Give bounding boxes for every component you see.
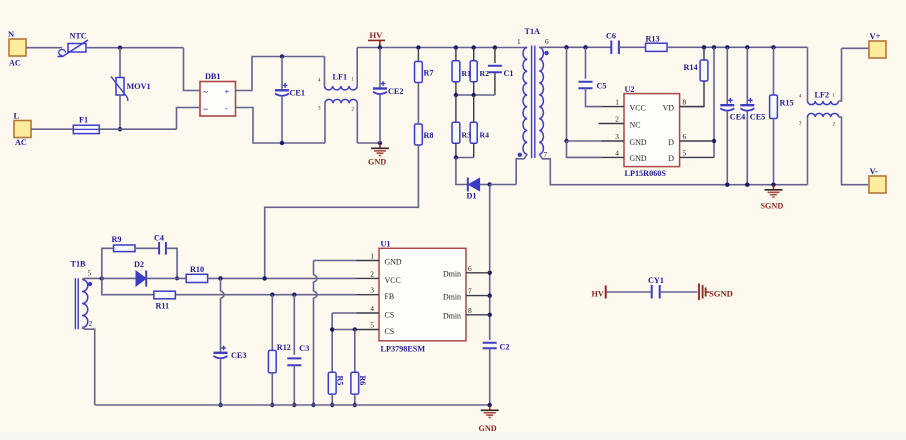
polarity dot T1A primary (518, 153, 522, 157)
resistor R11 (154, 291, 176, 299)
svg-text:5: 5 (683, 148, 687, 157)
svg-text:R15: R15 (780, 99, 794, 108)
drain bus vertical (489, 185, 491, 341)
svg-text:N: N (8, 29, 15, 39)
node CE1 top (280, 54, 284, 58)
node R12 top (270, 293, 274, 297)
wire MOV1 to node L-line (119, 95, 121, 129)
svg-text:T1B: T1B (71, 260, 87, 269)
U2 pin 3 GND (602, 140, 625, 142)
svg-text:7: 7 (544, 150, 548, 159)
svg-text:HV: HV (370, 30, 384, 40)
svg-text:NTC: NTC (70, 32, 87, 41)
terminal N (9, 39, 26, 56)
node CE1 bottom (280, 141, 284, 145)
svg-text:+: + (225, 88, 230, 97)
thermistor NTC (68, 44, 86, 53)
svg-text:CS: CS (385, 311, 395, 320)
terminal V- (869, 176, 886, 193)
diode D2 (102, 277, 136, 279)
wire R8 to VCC net (265, 145, 419, 278)
capacitor CE2 (379, 48, 381, 88)
wire R14 to VD pin8 (680, 81, 704, 107)
node CE3 branch (218, 276, 222, 280)
svg-text:FB: FB (385, 292, 395, 301)
svg-text:1: 1 (615, 98, 619, 107)
node C3 bottom (292, 403, 296, 407)
node CE3 bottom (218, 403, 222, 407)
node Dmin pin6 (488, 271, 492, 275)
wire node to DB1 top input (184, 48, 201, 91)
capacitor C2 (483, 343, 497, 349)
svg-text:DB1: DB1 (205, 72, 220, 81)
resistor R14 (703, 47, 705, 60)
wire D2 to R10 (146, 277, 186, 279)
node R7 top (416, 45, 420, 49)
node junction N-line (118, 46, 122, 50)
svg-text:U1: U1 (381, 240, 391, 249)
svg-text:R10: R10 (190, 265, 204, 274)
svg-text:3: 3 (615, 132, 619, 141)
U1 pin 1 GND (357, 260, 380, 262)
port SGND (699, 284, 706, 301)
transformer T1A core (532, 46, 535, 159)
node C1 top (493, 45, 497, 49)
wire secondary pin7 to output return rail (539, 154, 807, 185)
svg-text:HV: HV (592, 290, 604, 299)
resistor R12 branch (271, 295, 273, 351)
capacitor C3 branch (293, 295, 295, 355)
svg-text:SGND: SGND (761, 202, 784, 211)
wire F1 to node (99, 128, 176, 130)
svg-text:8: 8 (683, 98, 687, 107)
polarity dot T1B (88, 282, 92, 286)
svg-text:U2: U2 (625, 85, 635, 94)
node GND net bottom (311, 403, 315, 407)
choke LF1 lower winding (324, 103, 326, 143)
svg-text:D: D (668, 138, 674, 147)
op-amp U2 LP15R060S box (624, 94, 680, 167)
node R3 bottom (454, 155, 458, 159)
svg-text:CS: CS (385, 327, 395, 336)
node R8 feed (263, 276, 267, 280)
wire snubber mid rail (456, 94, 495, 96)
svg-text:6: 6 (683, 132, 687, 141)
node CE4 top (725, 45, 729, 49)
node U2 gnd branch (564, 45, 568, 49)
svg-text:GND: GND (385, 258, 402, 267)
svg-text:6: 6 (468, 264, 472, 273)
node C3 top (292, 293, 296, 297)
U1 pin 2 VCC (357, 277, 380, 279)
svg-text:GND: GND (479, 424, 497, 433)
node R6 bottom (353, 403, 357, 407)
varistor MOV1 (116, 78, 124, 96)
choke LF2 upper winding (807, 47, 809, 101)
wire U2 gnd branch (566, 47, 568, 141)
U2 pin 5 D (680, 156, 714, 158)
wire FB row left (102, 278, 357, 294)
svg-text:T1A: T1A (525, 27, 541, 36)
svg-text:5: 5 (88, 269, 92, 278)
resistor R7 (417, 48, 419, 62)
resistor R10 (186, 274, 208, 282)
node Dmin pin8 (488, 313, 492, 317)
svg-text:GND: GND (368, 158, 386, 167)
svg-text:V-: V- (870, 166, 879, 176)
U2 pin 1 VCC (602, 106, 625, 108)
svg-text:F1: F1 (79, 116, 88, 125)
svg-text:~: ~ (204, 88, 209, 97)
svg-text:CE5: CE5 (750, 113, 765, 122)
capacitor CE3 branch with hop (220, 278, 222, 291)
wire to U2 GND pin3 (567, 140, 602, 142)
resistor R1 (455, 48, 457, 61)
svg-text:R9: R9 (112, 235, 122, 244)
svg-text:C2: C2 (500, 343, 510, 352)
resistor R5 (328, 372, 336, 394)
capacitor C6 (611, 41, 619, 55)
resistor R6 (354, 330, 356, 373)
wire D-pins branch (713, 47, 715, 157)
node D-pins branch (712, 45, 716, 49)
svg-text:MOV1: MOV1 (127, 82, 151, 91)
svg-text:4: 4 (370, 304, 374, 313)
svg-text:GND: GND (630, 154, 647, 163)
svg-text:CE1: CE1 (290, 89, 305, 98)
svg-text:LF2: LF2 (815, 91, 830, 100)
node Dmin pin7 (488, 293, 492, 297)
node R1 top (454, 45, 458, 49)
node HV (378, 45, 382, 49)
svg-text:D1: D1 (467, 192, 477, 201)
svg-text:2: 2 (370, 269, 374, 278)
node junction L-line (118, 127, 122, 131)
transformer T1A secondary winding (539, 47, 543, 154)
node T1B pin5 (100, 276, 104, 280)
ground symbol GND bottom (489, 406, 491, 410)
svg-text:C1: C1 (504, 69, 514, 78)
wire to D1 (456, 158, 468, 185)
wire node to DB1 bottom input (177, 108, 201, 130)
resistor R9 (114, 245, 136, 252)
svg-text:VD: VD (663, 104, 675, 113)
wire C6 to R13 (619, 46, 646, 48)
node R14 top (702, 45, 706, 49)
node R15 top (771, 45, 775, 49)
node R2 top (472, 45, 476, 49)
wire R9 to C4 (135, 247, 158, 249)
node pin6 junction (712, 139, 716, 143)
svg-text:R5: R5 (336, 376, 345, 386)
svg-text:Dmin: Dmin (443, 292, 461, 301)
U2 pin 8 VD (680, 106, 704, 108)
svg-text:D: D (668, 154, 674, 163)
svg-text:1: 1 (370, 252, 374, 261)
svg-text:Dmin: Dmin (443, 312, 461, 321)
wire CY1 to SGND port (661, 291, 698, 293)
svg-text:CE4: CE4 (730, 113, 745, 122)
svg-text:2: 2 (89, 319, 93, 328)
svg-text:L: L (14, 111, 20, 121)
node C5 top (583, 45, 587, 49)
node CE5 top (745, 45, 749, 49)
node R12 bottom (270, 403, 274, 407)
U1 pin 6 Dmin (466, 272, 490, 274)
node CE2 bottom GND (378, 141, 382, 145)
svg-text:1: 1 (517, 37, 521, 46)
wire U1 GND net (314, 260, 357, 262)
wire HV port to CY1 (607, 291, 651, 293)
wire DB1 minus out to bottom rail (236, 108, 326, 144)
capacitor CY1 (652, 285, 660, 299)
terminal L (14, 121, 31, 138)
transformer T1B winding (82, 280, 88, 328)
capacitor C4 (159, 242, 166, 255)
ground symbol SGND (773, 185, 775, 189)
svg-text:5: 5 (370, 321, 374, 330)
wire snubber bottom rail (456, 157, 474, 159)
output top rail (667, 46, 807, 48)
svg-text:SGND: SGND (709, 289, 733, 299)
svg-text:AC: AC (15, 138, 27, 147)
wire C4 down to VCC row (166, 248, 177, 278)
svg-text:CE3: CE3 (231, 351, 246, 360)
wire to U2 GND pin4 (567, 141, 602, 157)
svg-text:R3: R3 (462, 130, 472, 139)
svg-text:4: 4 (615, 148, 619, 157)
resistor R13 (646, 43, 668, 51)
resistor R3 (455, 95, 457, 122)
svg-text:Dmin: Dmin (443, 270, 461, 279)
op-amp U1 LP3798ESM box (379, 248, 466, 340)
wire L to F1 (31, 128, 73, 130)
U2 pin 2 NC (599, 123, 625, 125)
wire primary bottom to drain node (490, 184, 517, 186)
wire N to NTC (26, 47, 62, 49)
wire D1 to drain node (480, 184, 490, 186)
svg-text:7: 7 (468, 287, 472, 296)
U1 pin 4 CS (357, 312, 380, 314)
svg-text:R6: R6 (358, 376, 367, 386)
svg-text:AC: AC (9, 59, 21, 68)
terminal V+ (869, 41, 886, 58)
node GND rail end (488, 403, 492, 407)
wire CS pin4 branch (332, 312, 356, 314)
svg-text:R11: R11 (156, 302, 170, 311)
svg-text:GND: GND (630, 138, 647, 147)
svg-text:R12: R12 (277, 343, 291, 352)
node drain (488, 182, 492, 186)
choke LF2 lower winding (807, 117, 809, 185)
HV rail (357, 47, 527, 49)
ground symbol GND primary (379, 144, 381, 148)
U1 pin 8 Dmin (466, 314, 490, 316)
wire aux loop left (102, 248, 113, 278)
wire VCC row (208, 277, 357, 279)
svg-text:3: 3 (370, 286, 374, 295)
vertical GND net with hops (313, 261, 315, 276)
svg-text:NC: NC (630, 121, 641, 130)
choke LF1 upper winding (324, 57, 326, 87)
node R2 bottom (472, 93, 476, 97)
wire LF2 to V+ (842, 47, 870, 49)
polarity dot T1A secondary (544, 51, 548, 55)
svg-text:C3: C3 (299, 344, 309, 353)
transformer T1A primary winding (523, 48, 527, 155)
svg-text:R1: R1 (462, 69, 472, 78)
U2 pin 4 GND (602, 156, 625, 158)
svg-text:C4: C4 (154, 234, 164, 243)
U2 pin 6 D (680, 140, 714, 142)
svg-text:R7: R7 (424, 69, 434, 78)
node C4 branch (175, 276, 179, 280)
node R5 top (330, 327, 334, 331)
node CE4 bottom (725, 183, 729, 187)
bottom ground rail (95, 404, 490, 406)
svg-text:R2: R2 (480, 69, 490, 78)
svg-text:R14: R14 (684, 63, 698, 72)
wire CS pin5 row (332, 329, 356, 331)
svg-text:V+: V+ (870, 31, 881, 41)
svg-text:-: - (225, 104, 228, 113)
U1 pin 3 FB (357, 294, 380, 296)
node SGND (771, 183, 775, 187)
svg-text:R8: R8 (424, 131, 434, 140)
capacitor CE5 (746, 47, 748, 104)
svg-text:R4: R4 (480, 130, 490, 139)
capacitor C5 (585, 47, 587, 79)
resistor R15 (773, 47, 775, 95)
svg-text:LP3798ESM: LP3798ESM (381, 345, 426, 354)
wire NTC to node (86, 47, 184, 49)
wire node to MOV1 (119, 48, 121, 78)
capacitor CE4 (726, 47, 728, 104)
svg-text:6: 6 (545, 37, 549, 46)
U1 pin 5 CS (357, 329, 380, 331)
diode D1 (467, 178, 469, 192)
bridge rectifier DB1 (200, 82, 236, 117)
resistor R2 (473, 48, 475, 61)
svg-text:R13: R13 (646, 35, 660, 44)
node pin3 branch (564, 139, 568, 143)
svg-text:2: 2 (615, 115, 619, 124)
svg-text:~: ~ (204, 105, 209, 114)
svg-text:8: 8 (468, 306, 472, 315)
svg-text:VCC: VCC (385, 276, 401, 285)
svg-text:CY1: CY1 (648, 276, 664, 285)
svg-text:D2: D2 (134, 260, 144, 269)
svg-text:C6: C6 (606, 32, 616, 41)
node CE5 bottom (745, 183, 749, 187)
fuse F1 (73, 125, 99, 133)
resistor R8 (415, 124, 423, 145)
wire DB1 plus out to filter rail (236, 57, 325, 91)
capacitor CE1 (281, 57, 283, 90)
resistor R4 (473, 95, 475, 122)
node R5 bottom (330, 403, 334, 407)
svg-text:LP15R060S: LP15R060S (625, 169, 667, 178)
node R6 top (353, 327, 357, 331)
svg-text:C5: C5 (597, 82, 607, 91)
svg-text:CE2: CE2 (388, 87, 403, 96)
svg-text:VCC: VCC (630, 104, 646, 113)
transformer T1B core (75, 278, 78, 329)
svg-text:LF1: LF1 (333, 73, 348, 82)
capacitor C1 (494, 48, 496, 64)
wire secondary pin6 rail (539, 46, 611, 48)
wire R7 to R8 (417, 83, 419, 125)
node R1 bottom (454, 93, 458, 97)
U1 pin 7 Dmin (466, 295, 490, 297)
wire LF1 lower to GND node (357, 142, 380, 144)
